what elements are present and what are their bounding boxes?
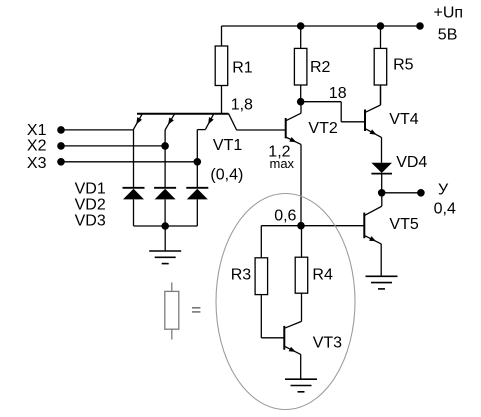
wire VT4 collector to R5 xyxy=(380,85,382,105)
svg-text:VD1: VD1 xyxy=(75,181,106,198)
equivalence ellipse xyxy=(216,194,355,410)
wire VT5 emitter to ground xyxy=(380,244,382,276)
label VD3 xyxy=(75,213,106,230)
wire 0,6 node to VT5 base xyxy=(301,225,364,227)
wire VT4 emitter to VD4 xyxy=(381,137,383,162)
label 5V xyxy=(438,26,458,43)
wire X2 to emitter2 xyxy=(61,145,165,147)
resistor R3 xyxy=(231,258,268,338)
junction X3/emitter3 xyxy=(194,158,202,166)
junction rail/R2 xyxy=(297,22,305,30)
svg-text:R1: R1 xyxy=(232,60,253,77)
wire VT2 emitter down xyxy=(300,144,302,225)
svg-text:+Uп: +Uп xyxy=(434,5,464,22)
wire diode common bus xyxy=(134,225,198,227)
svg-text:VD4: VD4 xyxy=(396,154,427,171)
wire VD4 to output node xyxy=(381,174,383,193)
junction output node xyxy=(378,189,386,197)
ground 3 xyxy=(285,379,317,392)
wire output xyxy=(382,192,421,194)
svg-text:5В: 5В xyxy=(438,26,458,43)
junction 0,6 node xyxy=(297,222,305,230)
resistor R5 xyxy=(374,26,413,105)
svg-text:VD2: VD2 xyxy=(75,197,106,214)
junction R2/VT2 collector xyxy=(297,98,305,106)
transistor VT1 multi-emitter xyxy=(134,114,243,154)
transistor VT3 xyxy=(284,321,342,354)
wire X1 to emitter1 xyxy=(61,129,134,131)
node voltage label 18 xyxy=(329,85,347,102)
wire emitter1 vertical xyxy=(133,129,135,188)
diode VD2 xyxy=(154,188,176,200)
svg-text:X3: X3 xyxy=(27,155,47,172)
wire VT5 collector up xyxy=(381,193,383,206)
terminal output Y xyxy=(417,189,425,197)
diode VD1 xyxy=(123,188,145,200)
svg-text:VD3: VD3 xyxy=(75,213,106,230)
label output Y xyxy=(438,181,449,198)
transistor VT5 xyxy=(364,206,419,244)
svg-text:R5: R5 xyxy=(393,57,414,74)
svg-text:VT5: VT5 xyxy=(389,216,418,233)
wire X3 to emitter3 xyxy=(61,161,197,163)
svg-text:X2: X2 xyxy=(27,137,47,154)
wire below VD2 xyxy=(164,199,166,226)
node voltage label 1,8 xyxy=(231,96,253,113)
svg-text:VT4: VT4 xyxy=(389,111,418,128)
svg-text:У: У xyxy=(438,181,449,198)
wire below VD3 xyxy=(196,199,198,226)
terminal +Un dot xyxy=(416,22,424,30)
svg-text:(0,4): (0,4) xyxy=(210,167,243,184)
svg-text:0,6: 0,6 xyxy=(274,207,296,224)
wire emitter2 vertical xyxy=(164,130,166,188)
svg-text:R3: R3 xyxy=(231,267,252,284)
resistor R4 xyxy=(295,226,333,322)
wire +Un power rail xyxy=(222,25,421,27)
svg-text:X1: X1 xyxy=(27,122,47,139)
svg-text:VT3: VT3 xyxy=(313,334,342,351)
svg-text:0,4: 0,4 xyxy=(434,200,456,217)
legend equals sign xyxy=(192,308,200,312)
transistor VT4 xyxy=(365,105,419,137)
label +Un xyxy=(434,5,464,22)
svg-text:max: max xyxy=(270,156,295,171)
wire R2 node to VT4 base xyxy=(301,102,365,122)
wire VT3 emitter to ground xyxy=(300,354,302,379)
wire emitter3 vertical xyxy=(196,130,198,188)
resistor R1 xyxy=(215,26,253,114)
svg-text:R4: R4 xyxy=(312,267,333,284)
input terminal X2 xyxy=(27,137,65,154)
wire to ground 1 xyxy=(164,226,166,251)
junction diode bus xyxy=(161,222,169,230)
ground 1 xyxy=(149,251,181,264)
wire 0,6 node left to R3 xyxy=(261,226,301,258)
label VD1 xyxy=(75,181,106,198)
svg-text:R2: R2 xyxy=(310,59,331,76)
diode VD3 xyxy=(186,188,208,200)
transistor VT2 xyxy=(286,113,338,144)
diode VD4 xyxy=(371,154,427,174)
junction rail/R5 xyxy=(377,22,385,30)
resistor R2 xyxy=(294,26,330,102)
input terminal X1 xyxy=(27,122,65,139)
node voltage label 1,2 max xyxy=(268,144,294,171)
svg-text:VT2: VT2 xyxy=(308,120,337,137)
junction X2/emitter2 xyxy=(161,142,169,150)
wire VT2 collector up xyxy=(300,102,302,114)
wire below VD1 xyxy=(133,199,135,226)
label VD2 xyxy=(75,197,106,214)
legend resistor symbol xyxy=(165,283,179,340)
wire R3 to VT3 base xyxy=(261,337,284,339)
node voltage label 0,4 xyxy=(434,200,456,217)
svg-text:VT1: VT1 xyxy=(213,137,242,154)
svg-text:18: 18 xyxy=(329,85,347,102)
input terminal X3 xyxy=(27,155,65,172)
wire VT1 collector to VT2 base xyxy=(237,129,286,131)
node voltage label 0,6 xyxy=(274,207,296,224)
node voltage label (0,4) xyxy=(210,167,243,184)
ground 2 xyxy=(366,276,398,289)
svg-text:1,8: 1,8 xyxy=(231,96,253,113)
